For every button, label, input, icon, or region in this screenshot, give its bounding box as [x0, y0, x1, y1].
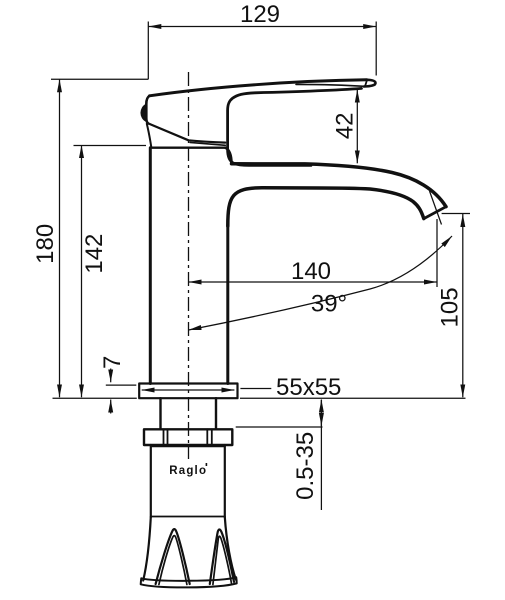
55x55 dim line	[142, 389, 235, 391]
skirt rim middle line	[190, 142, 225, 145]
nut facet lines	[164, 429, 212, 445]
spout outlet face	[424, 207, 446, 219]
svg-text:142: 142	[81, 234, 108, 274]
dim 105 line	[462, 214, 464, 397]
39 degree arc	[189, 236, 453, 330]
baseline extension left	[53, 397, 137, 399]
svg-text:55x55: 55x55	[276, 374, 341, 401]
spout top curve	[232, 164, 447, 207]
dimension thin lines	[51, 22, 470, 511]
centerline (vertical dash-dot axis)	[188, 72, 190, 459]
svg-text:39°: 39°	[311, 291, 347, 318]
svg-text:129: 129	[240, 1, 280, 28]
spout flow direction line	[430, 191, 442, 225]
base body left edge	[150, 445, 152, 517]
lever handle top edge	[150, 80, 367, 96]
dim 140 right extension	[436, 219, 438, 287]
dim 7 lower arrow	[110, 400, 112, 414]
lever tip inner line	[365, 80, 367, 86]
bottom rim band	[141, 577, 237, 587]
shank left line	[159, 398, 161, 429]
lever skirt bottom diagonal	[148, 123, 225, 142]
svg-text:7: 7	[99, 356, 126, 369]
base mid horizontal line	[151, 516, 225, 518]
svg-text:105: 105	[437, 287, 464, 327]
dim 180 line	[59, 79, 61, 397]
body right edge	[226, 226, 229, 384]
dim 0.5-35 down arrow	[320, 414, 322, 426]
dim 129 right extension	[375, 22, 377, 76]
lever skirt front-left silhouette	[147, 124, 152, 147]
base flare left silhouette	[143, 517, 151, 581]
spout bottom curve	[228, 188, 424, 226]
dim 142 line	[81, 145, 83, 397]
dim 42 line	[356, 90, 358, 164]
mounting nut	[144, 429, 232, 445]
dim 129 line	[148, 26, 376, 28]
base flare right silhouette	[225, 517, 236, 580]
svg-text:180: 180	[32, 224, 59, 264]
lever handle back end	[146, 96, 149, 124]
dim 180 top extension	[51, 78, 148, 80]
svg-text:42: 42	[331, 112, 358, 139]
dim 142 top extension	[74, 145, 147, 147]
body top line	[152, 146, 226, 148]
nut-top extension line	[236, 426, 323, 428]
svg-text:0.5-35: 0.5-35	[292, 432, 319, 500]
dim 7 flange-top extension	[106, 384, 137, 386]
lever underside / bulge outline	[228, 88, 362, 165]
dim 0.5-35 up arrow	[320, 400, 322, 413]
dim 7 upper arrow	[110, 369, 112, 383]
svg-text:Raglo: Raglo	[169, 465, 207, 477]
dim 129 left extension	[147, 22, 149, 80]
lever tip cap	[364, 80, 376, 87]
right wing outer	[210, 530, 234, 585]
base top edge under nut	[151, 445, 225, 447]
shank right line	[215, 398, 217, 429]
flange (55x55 base plate)	[139, 384, 237, 399]
dim 105 top extension	[442, 213, 470, 215]
svg-text:140: 140	[291, 258, 331, 285]
55x55 leader	[240, 388, 271, 390]
lever grip underside sliver	[296, 84, 365, 86]
left wing outer	[156, 529, 190, 584]
left wing inner	[159, 536, 187, 585]
right wing inner	[213, 536, 232, 584]
body left edge	[149, 148, 152, 384]
dim 0.5-35 line	[320, 400, 322, 510]
spout transition from body top	[225, 148, 231, 164]
Raglo trademark tick	[206, 463, 208, 466]
dim 140 line	[189, 281, 438, 283]
baseline extension right	[240, 397, 466, 399]
base body right edge	[224, 445, 226, 517]
handle button (black blob)	[141, 105, 146, 122]
